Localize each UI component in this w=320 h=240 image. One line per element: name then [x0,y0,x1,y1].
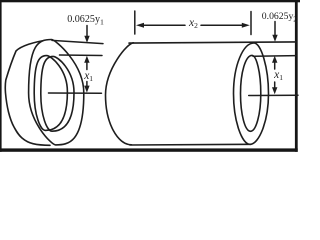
line R3 centre right [249,94,298,96]
x2 dim right tick [250,12,252,35]
x1 right up head [272,56,277,63]
frame top [0,0,300,2]
x2 left head [136,23,144,28]
x2 dim left tick [134,11,136,34]
x1 right down head [272,87,277,94]
svg-text:0.0625y1: 0.0625y1 [67,14,104,27]
line L2 lower tangent left [60,54,103,57]
svg-text:0.0625y2: 0.0625y2 [262,11,297,24]
cylinder left face arc [106,43,134,145]
x1 left lower shaft [86,82,88,89]
line R2 lower tangent right [253,55,296,58]
cylinder top edge + extension [129,42,296,43]
x1 right upper shaft [274,59,276,70]
x2 right head [242,23,250,28]
ring back outer arc [5,40,50,145]
y1 arrow shaft [86,26,88,38]
x1 right lower shaft [274,82,276,89]
ring front inner [41,56,74,131]
frame right [295,0,298,152]
cylinder right inner ellipse [241,55,261,131]
frame left [0,0,2,152]
cylinder right outer ellipse [234,43,269,144]
y2 arrow shaft [274,22,276,37]
x1 left down head [84,86,89,93]
x2 dim line right segment [201,24,245,26]
x1 left up head [84,56,89,63]
ring back inner [34,56,67,131]
y1 arrow head [84,36,89,43]
y2 arrow head [272,35,277,42]
x2 dim line left segment [141,24,185,26]
frame bottom [0,148,298,151]
line L3 centre left [49,92,102,94]
line L1 upper tangent left [52,40,103,43]
x1 left upper shaft [86,59,88,70]
ring front outer [29,40,84,145]
cylinder bottom edge [130,143,251,146]
